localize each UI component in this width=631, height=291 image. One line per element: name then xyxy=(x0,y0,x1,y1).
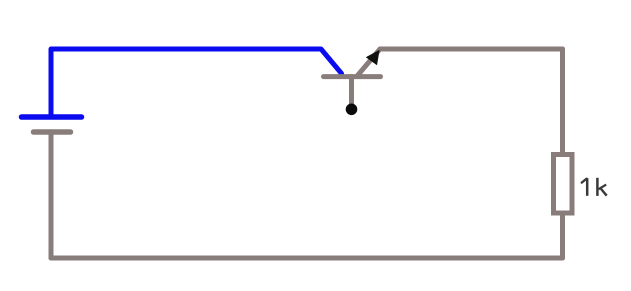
wire: blue top-left run from battery + terminal to transistor collector xyxy=(51,49,342,117)
wire: right vertical above resistor xyxy=(560,49,565,154)
transistor Q1 base bar xyxy=(324,74,381,79)
transistor Q1 emitter diagonal xyxy=(358,49,381,76)
battery V1 positive plate (long, blue) xyxy=(22,114,82,120)
wire: right vertical below resistor xyxy=(560,213,565,258)
transistor Q1 base lead xyxy=(349,77,354,105)
wire: left vertical from battery - terminal down xyxy=(49,132,54,258)
resistor R1 body xyxy=(554,155,573,214)
node: base terminal dot xyxy=(346,104,358,116)
battery V1 negative plate (short, gray) xyxy=(34,129,71,135)
transistor Q1 emitter arrowhead xyxy=(366,50,380,65)
resistor R1 value label "1k" (drawn as vector strokes) xyxy=(582,178,607,196)
wire: top gray run from transistor emitter to right side xyxy=(380,47,563,52)
wire: bottom return run xyxy=(51,256,563,261)
